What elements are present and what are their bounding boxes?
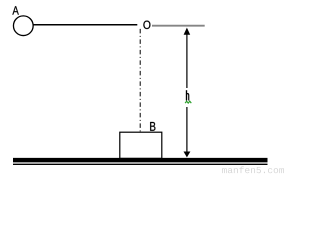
block B (box on ground) [120, 132, 162, 158]
label h [186, 90, 188, 100]
label B [150, 122, 155, 131]
ball A (circle) [13, 16, 33, 36]
arrowhead up [184, 28, 191, 35]
green squiggle under h [185, 101, 191, 103]
ground thick line [13, 158, 268, 163]
watermark manfen5.com [222, 166, 284, 173]
height arrow shaft lower [186, 107, 188, 152]
height arrow shaft upper [186, 33, 188, 88]
label A [12, 6, 18, 14]
gray ledge line right of O [152, 25, 205, 27]
ground thin line [13, 163, 268, 165]
arrowhead down [184, 152, 191, 158]
dash-dot vertical reference line [139, 29, 141, 137]
string from A to O (wire) [33, 24, 137, 26]
label O [143, 21, 150, 29]
